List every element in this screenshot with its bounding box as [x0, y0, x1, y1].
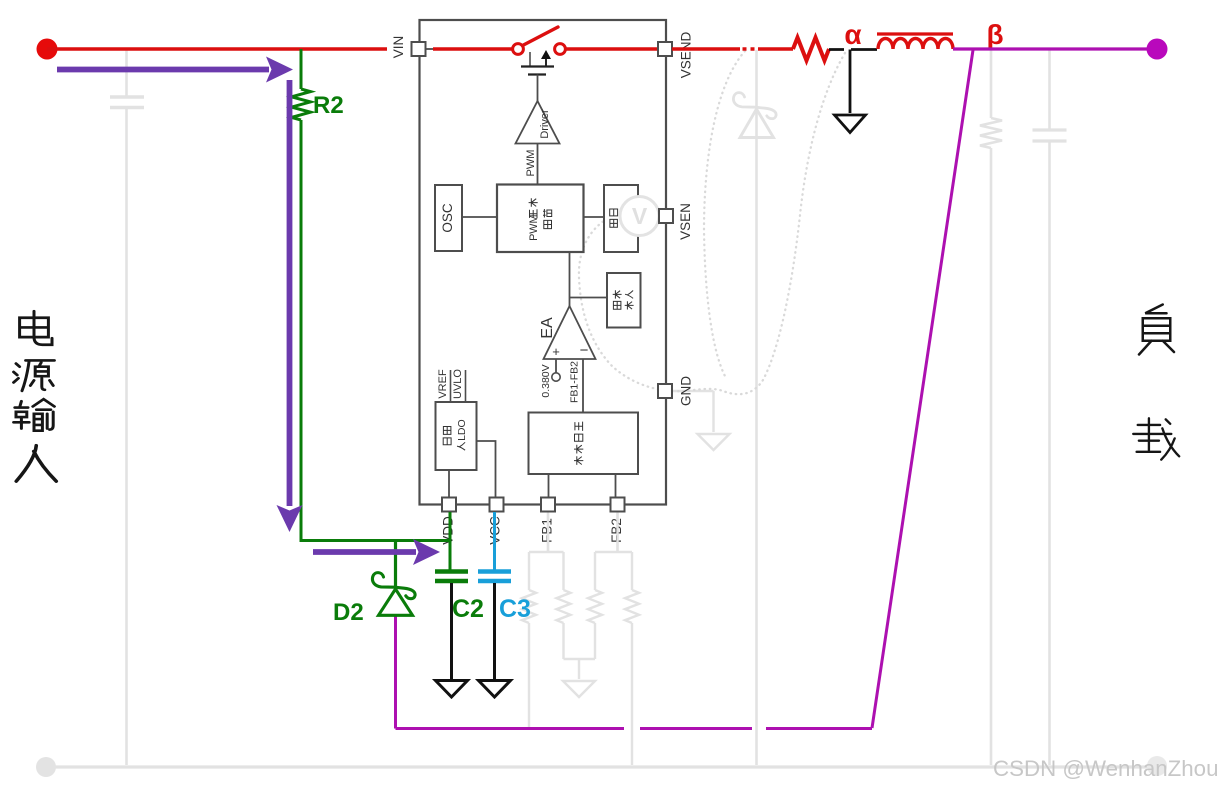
flow arrow 2 (down R2 branch): [287, 80, 293, 506]
pin VSEND: [658, 42, 672, 56]
svg-text:V: V: [632, 203, 648, 229]
magenta wire: inductor to load: [953, 47, 1147, 50]
svg-text:α: α: [844, 19, 861, 50]
diode D1 branch (faded): [733, 50, 776, 765]
dotted annotation loop around D1 branch (removed path): [677, 51, 845, 394]
IC U1 outline: [420, 20, 667, 505]
svg-text:PWM: PWM: [525, 150, 537, 177]
GND pin external ground (faded): [672, 391, 730, 450]
dotted annotation curve inside IC (VSEN feedback, removed): [579, 216, 666, 391]
inductor-current block label (电感电流): [610, 209, 618, 227]
MOSFET symbol under switch: [529, 52, 531, 67]
svg-text:R2: R2: [313, 92, 344, 119]
flow arrow 1 (input, horizontal): [57, 67, 269, 73]
FB1 divider network (faded): [522, 512, 595, 728]
ground under C3: [479, 681, 511, 698]
input node dot: [37, 39, 58, 60]
block bias-LDO: [436, 402, 477, 470]
bias/LDO block label (偏置及LDO): [443, 427, 451, 445]
C2 ground stem: [450, 583, 453, 679]
block inductor-current: [604, 185, 638, 252]
diode D2 (green) with squiggle: [379, 589, 413, 615]
block OSC: [435, 185, 462, 251]
wire PWM bottom to EA output node: [569, 252, 571, 306]
EA - input from FB1-FB2: [582, 359, 584, 413]
pin FB1: [541, 498, 555, 512]
output capacitor (faded): [1033, 50, 1067, 765]
op-amp EA: [544, 306, 596, 359]
FB2 divider network (faded): [588, 512, 639, 766]
pin GND: [658, 384, 672, 398]
sample-hold to FB1 pin: [548, 474, 550, 498]
inductor L1 (red): [878, 39, 953, 49]
green wire: branch down to D2: [394, 541, 397, 588]
capacitor C3 (cyan plates): [478, 572, 511, 582]
flow arrow 3 (into VDD): [313, 549, 416, 555]
EA + input: 0.380V reference: [555, 359, 557, 373]
internal power switch: red stub from VIN: [426, 48, 434, 50]
wire EA node to freq compensation: [570, 297, 608, 299]
svg-text:VREF: VREF: [437, 369, 449, 399]
svg-text:VSEND: VSEND: [679, 31, 694, 78]
svg-text:C2: C2: [452, 595, 484, 623]
magenta return bottom run (with crossover gaps): [396, 616, 873, 729]
gray node dot left: [36, 757, 56, 777]
gray node dot right: [1147, 756, 1167, 776]
switch contact left: [513, 44, 524, 55]
svg-text:GND: GND: [679, 376, 694, 406]
pin VDD: [442, 498, 456, 512]
FB2 pin stub overlay: [616, 513, 618, 552]
red wire: VSEND to resistor (with crossover gaps): [672, 47, 793, 50]
svg-text:Driver: Driver: [539, 109, 551, 139]
pin FB2: [611, 498, 625, 512]
wire driver to PWM block, PWM label: [537, 144, 539, 185]
switch contact right: [555, 44, 566, 55]
svg-text:D2: D2: [333, 599, 364, 626]
load node dot: [1147, 39, 1168, 60]
pin VSEN: [659, 209, 673, 223]
C3 ground stem: [493, 583, 496, 679]
caption 电源输入 (power input): [14, 311, 57, 481]
green wire: R2 down and over to VDD: [301, 120, 450, 541]
block PWM generator: [497, 185, 584, 253]
V sense meter: [620, 197, 659, 236]
svg-text:C3: C3: [499, 595, 531, 623]
VREF output line: [450, 370, 452, 402]
resistor (red, output filter): [793, 38, 829, 61]
svg-text:VSEN: VSEN: [678, 203, 693, 240]
svg-text:PWM: PWM: [528, 215, 540, 241]
bias-LDO to VCC pin: [477, 441, 496, 498]
input capacitor C1 (faded): [110, 50, 144, 765]
wire inductor-current block to VSEN pin: [638, 215, 659, 217]
svg-text:EA: EA: [539, 317, 556, 339]
gate wire to driver: [537, 75, 539, 102]
ground under C2: [436, 681, 468, 698]
wire OSC to PWM: [462, 216, 497, 218]
svg-text:+: +: [552, 344, 560, 359]
UVLO output line: [465, 370, 467, 402]
caption 负载 (load): [1133, 305, 1179, 460]
green wire: VDD pin to C2: [449, 512, 452, 570]
output resistor (faded): [980, 50, 1002, 765]
driver buffer triangle: [516, 101, 560, 144]
node alpha: black tee: [829, 50, 877, 114]
svg-text:0.380V: 0.380V: [540, 364, 552, 397]
sample-hold to FB2 pin: [615, 474, 617, 498]
bottom gray rail: [46, 765, 1157, 768]
switch lever: [523, 27, 559, 46]
block sample-hold: [529, 413, 639, 475]
pin VIN: [412, 42, 426, 56]
svg-text:VIN: VIN: [391, 36, 406, 59]
pin VCC: [490, 498, 504, 512]
svg-text:LDO: LDO: [456, 419, 468, 441]
ground at alpha: [835, 115, 866, 133]
svg-text:β: β: [986, 19, 1003, 50]
svg-text:−: −: [580, 342, 589, 359]
wire PWM to inductor-current block: [584, 216, 605, 218]
bias-LDO to VDD pin: [448, 470, 450, 498]
frequency compensation block label (频率补偿): [613, 290, 622, 309]
PWM generator block label (PWM生成电路): [528, 198, 540, 241]
capacitor C2 (green plates): [435, 572, 468, 582]
block frequency compensation: [607, 273, 641, 328]
svg-text:FB1-FB2: FB1-FB2: [568, 361, 580, 403]
svg-text:OSC: OSC: [440, 203, 455, 233]
svg-text:CSDN @WenhanZhou: CSDN @WenhanZhou: [993, 756, 1218, 781]
magenta return diagonal: [872, 50, 973, 728]
resistor R2 (green): [292, 89, 311, 120]
green wire: R2 branch from input rail: [300, 49, 303, 89]
red wire: input to VIN: [47, 47, 387, 50]
svg-text:UVLO: UVLO: [452, 369, 464, 399]
sample-hold block label (采样保持): [574, 422, 583, 465]
cyan wire: VCC to C3: [493, 512, 496, 570]
FB1 pin stub overlay: [547, 513, 549, 552]
